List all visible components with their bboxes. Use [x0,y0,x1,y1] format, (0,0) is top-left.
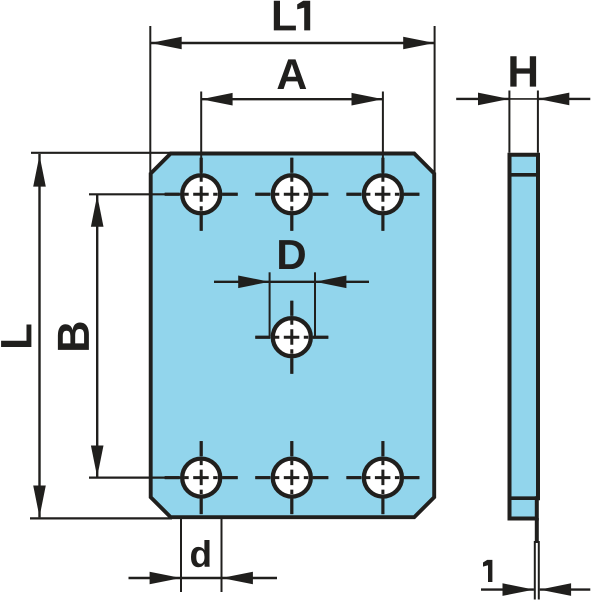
arrowhead 1 left (points right) [503,583,534,596]
wire: D left extension line [269,272,271,336]
wire: L1 right extension line [434,26,436,172]
arrowhead D left (points right) [238,276,269,289]
wire: A left extension line [200,92,202,175]
crosshair: hole top-middle centre lines [255,193,328,196]
wire: B top extension line [89,193,181,195]
crosshair dashes inside holes [165,158,420,514]
hole top-right ring [364,175,402,213]
arrowhead H left (points right) [478,93,509,106]
hole bottom-right ring [364,459,402,497]
label L1 (L glyph) [274,1,296,31]
crosshair: hole centre (middle) centre lines [255,336,328,339]
wire: d right extension line [221,517,223,593]
arrowhead L1 left [150,37,181,50]
crosshair: hole bottom-middle centre lines [255,476,328,479]
arrowhead d right (points left) [222,572,253,585]
label 1 (custom narrow) [483,560,492,582]
arrowhead L1 right [403,37,434,50]
wire: D right extension line [314,272,316,336]
hole bottom-middle ring [273,459,311,497]
label B (rotated) [58,323,89,350]
side view upper parting line [510,173,539,177]
hole top-left ring [182,175,220,213]
arrowhead A left [201,93,232,106]
wire: A right extension line [382,92,384,175]
wire: H right extension line [537,91,539,153]
hole top-middle ring [273,175,311,213]
label H [510,56,536,86]
wire: L bottom extension line [30,517,172,519]
label d [191,540,210,567]
hole centre ring [273,318,311,356]
arrowhead B top [91,195,104,226]
wire: d dimension line with outside arrows [129,577,278,579]
arrowhead D right (points left) [315,276,346,289]
label D [279,240,305,269]
wire: 1 left extension line [534,541,536,600]
wire: H dimension line outside-right [538,98,590,100]
wire: A dimension line [201,98,383,100]
side view plate body [510,155,539,519]
arrowhead A right [352,93,383,106]
arrowhead L bottom [33,486,46,517]
hole bottom-left ring [182,459,220,497]
label L1 (1 glyph, custom narrow) [297,1,310,31]
wire: L1 dimension line [150,42,434,44]
wire: layer thickness right edge continuation [535,518,539,543]
wire: 1 right extension line [538,541,540,600]
label L (rotated) [1,324,31,347]
crosshair: hole bottom-right centre lines [346,476,419,479]
label A [277,59,306,89]
arrowhead H right (points left) [538,93,569,106]
arrowhead B bottom [91,446,104,477]
arrowhead L top [33,155,46,186]
crosshair: hole bottom-left centre lines [165,476,238,479]
wire: H dimension line outside-left [456,98,509,100]
crosshair: hole top-left centre lines [165,158,420,514]
wire: 1 dimension line outside-left [481,588,534,590]
arrowhead 1 right (points left) [540,583,571,596]
arrowhead d left (points right) [150,572,181,585]
wire: H connector between extension lines [509,98,538,100]
wire: L dimension line [38,154,40,517]
crosshair: hole top-right centre lines [346,193,419,196]
wire: D dimension line with outside arrows [214,281,369,283]
plate front view [151,154,435,518]
wire: 1 dimension line outside-right [540,588,591,590]
side view lower parting line [510,496,539,500]
wire: B bottom extension line [89,477,181,479]
wire: B dimension line [96,194,98,477]
wire: L1 left extension line [149,26,151,172]
wire: H left extension line [508,91,510,153]
wire: d left extension line [180,517,182,593]
wire: L top extension line [31,152,170,154]
